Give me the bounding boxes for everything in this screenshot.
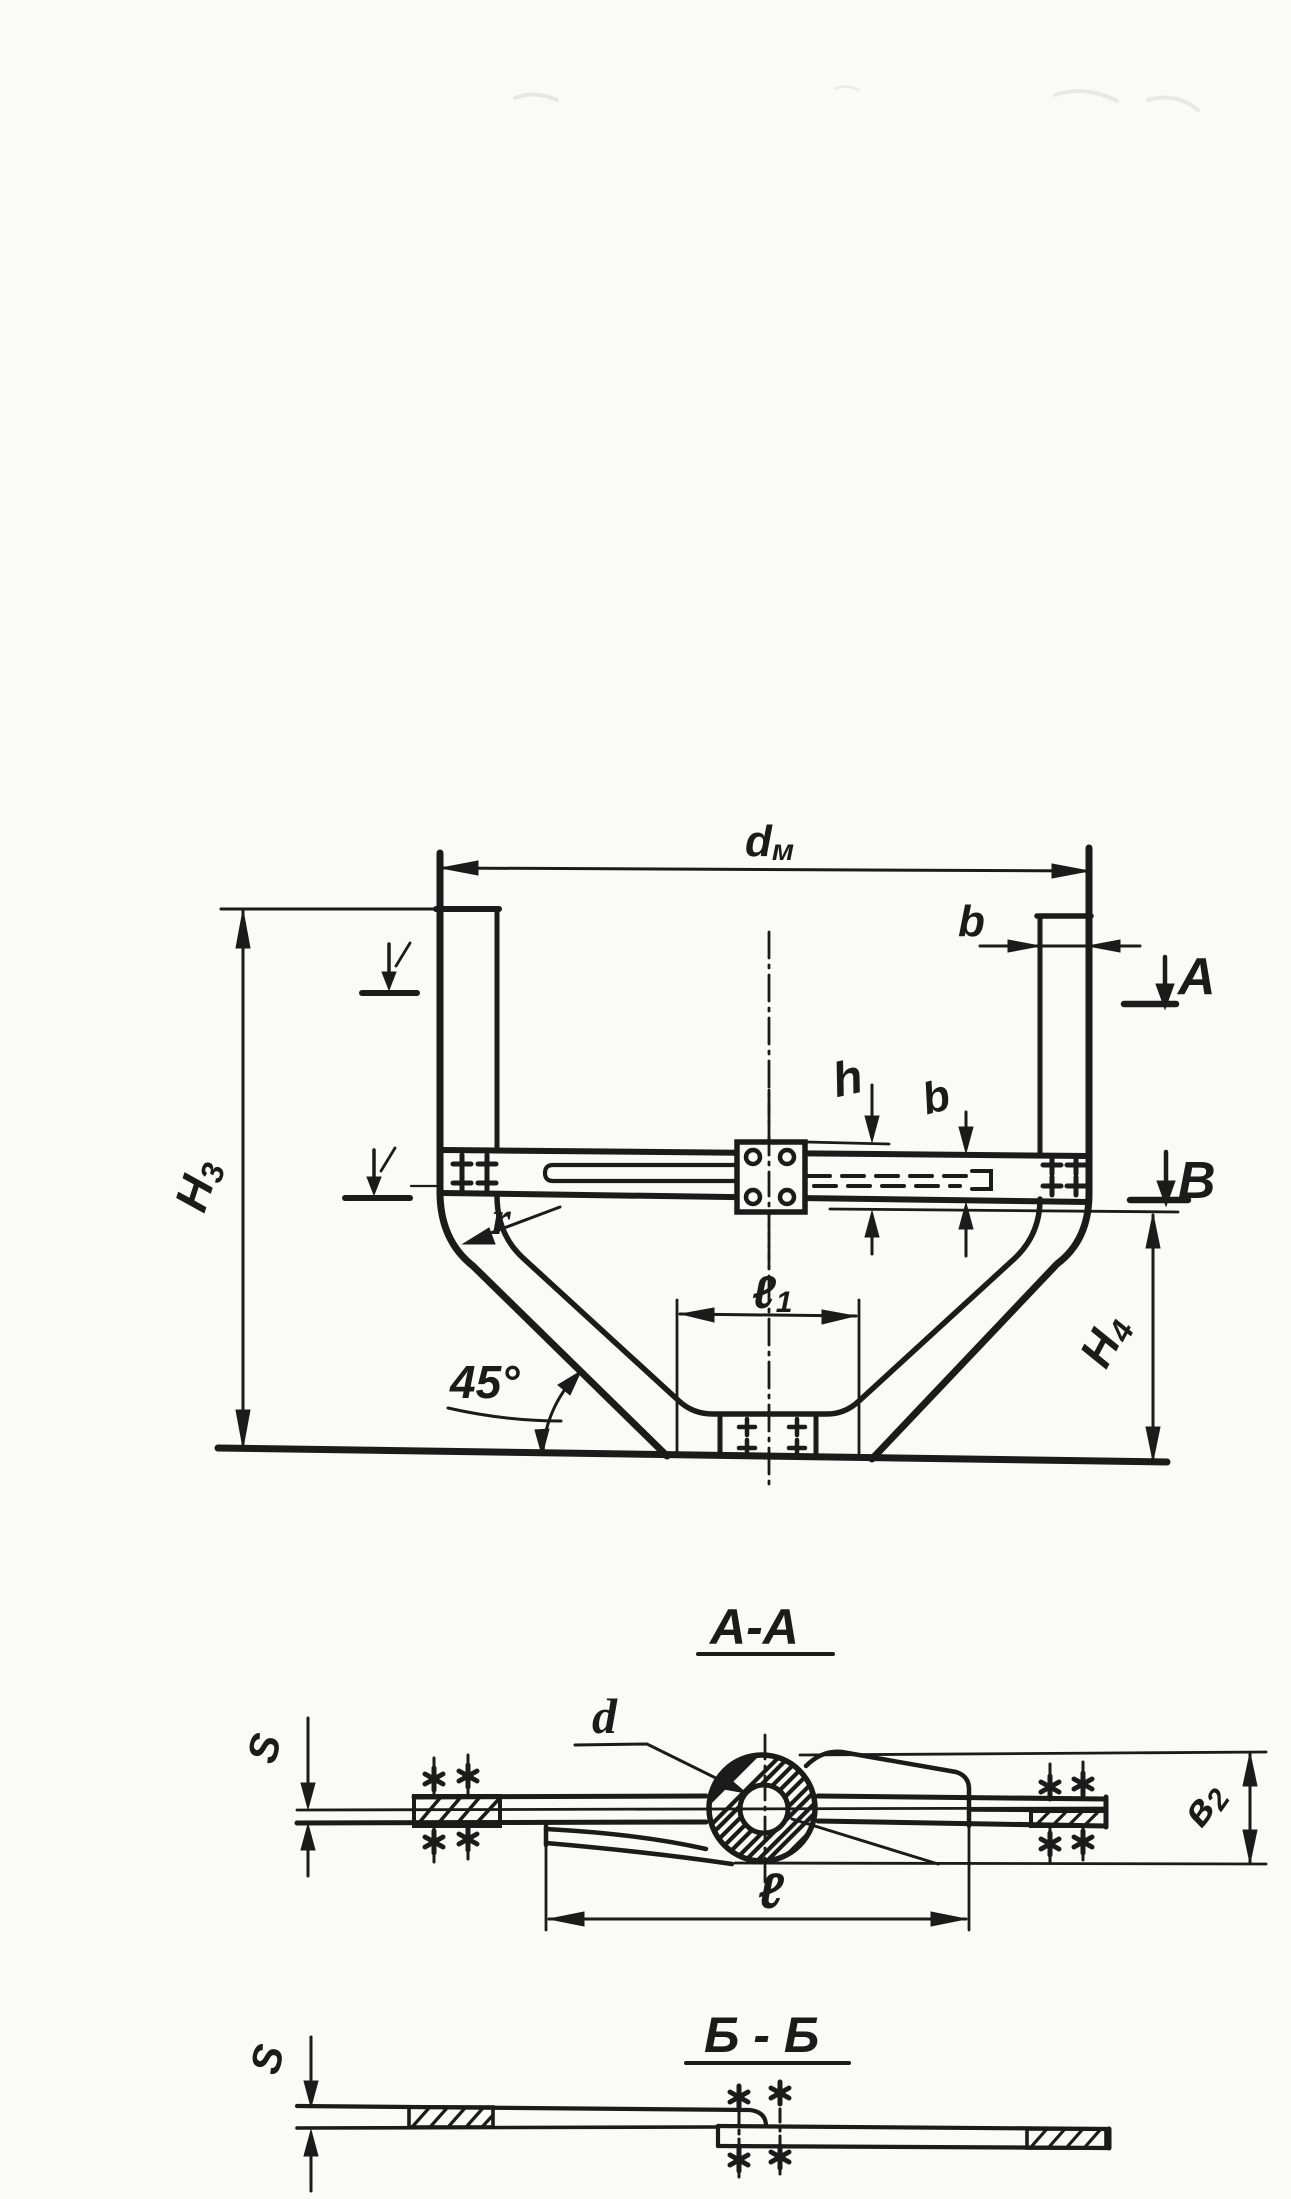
dimension l extension left [545,1847,548,1930]
dimension dM extension left [439,852,442,910]
svg-text:Б - Б: Б - Б [704,2007,819,2063]
centerline crossbar stub [411,1185,436,1187]
upper right blade edge [806,1752,969,1826]
label d with leader arrow [575,1688,746,1793]
weld crosses at left arm joint [453,1155,496,1192]
weld joint centerlines [739,2082,780,2177]
hub bolt hole 4 [780,1190,794,1204]
dimension dM line with arrows [441,861,1089,878]
angle 45 arc with arrows [535,1371,581,1455]
right arm inner edge [1038,916,1043,1154]
lower left blade edge [546,1826,732,1864]
extension line under crossbar for h and H4 [830,1209,1178,1212]
lower plate top edge [718,2126,1109,2129]
strip middle line through hub [297,1808,1106,1810]
weld crosses at right arm joint [1043,1156,1085,1195]
weld stars right of hub [1041,1762,1092,1862]
strip top edge (blade plate) [414,1796,1106,1799]
radius r leader [463,1207,560,1244]
right arm outer edge with corner radius into right outer diagonal [872,848,1089,1459]
svg-text:В: В [1178,1152,1216,1210]
right arm section hatched [970,1810,1106,1826]
dimension H4 line with arrows [1146,1214,1160,1461]
lower plate end cap [1107,2129,1112,2148]
upper plate top edge [297,2106,766,2126]
weld crosses at bottom hub [739,1419,805,1456]
bottom hub left side [718,1414,723,1456]
left arm section hatched [414,1796,500,1826]
slot in crossbar left of hub [545,1165,737,1181]
dimension S left [304,2037,318,2191]
svg-text:b: b [958,897,985,946]
title underline [698,1652,833,1656]
hub centerline [768,1090,771,1268]
label 45 deg with leader [448,1408,561,1421]
dimension h arrows [865,1085,879,1254]
left arm outer edge with corner radius into left outer diagonal [440,853,667,1456]
weld stars at joint [730,2082,789,2171]
left arm inner edge [495,909,500,1151]
svg-text:А-А: А-А [708,1599,799,1655]
dimension l1 extension left [676,1300,679,1455]
title underline [686,2061,849,2065]
right arm top edge [1037,913,1091,919]
svg-text:r: r [492,1192,512,1245]
section B-B view [241,2007,1109,2191]
hidden strip dashed edges right of hub [808,1176,966,1186]
weld arrow symbol upper left [362,943,417,993]
dimension b2 line with arrows [1243,1753,1257,1863]
dimension dM extension right [1088,848,1091,916]
dimension H3 line with arrows [236,910,250,1448]
main view: anchor frame front elevation [164,817,1215,1490]
hub bore circle d [740,1785,788,1833]
hub ring hatching [700,1726,864,1880]
svg-text:ℓ: ℓ [758,1863,785,1919]
b2 extension bottom [735,1863,1266,1864]
dimension H3 extension top [221,908,440,911]
section A-A view [238,1599,1266,1930]
dimension S left [301,1718,315,1876]
lower plate bottom edge [718,2146,1109,2148]
hub bolt hole 3 [746,1190,760,1204]
hub vertical centerline [764,1735,767,1884]
hub bolt hole 2 [780,1150,794,1164]
left arm top edge [436,906,499,912]
section arrow B [1130,1152,1188,1206]
crossbar top edge [443,1150,1088,1156]
svg-text:45°: 45° [449,1356,520,1408]
upper plate hatched arm section [409,2107,493,2127]
hub bolt hole 1 [746,1150,760,1164]
dimension l1 extension right [858,1300,861,1458]
weld arrow symbol lower left [345,1148,410,1198]
b2 extension top [800,1752,1266,1755]
lower plate step [716,2126,720,2146]
lower plate hatched arm section [1027,2129,1106,2148]
bottom hub right side [814,1414,819,1457]
crossbar bottom edge [443,1193,1088,1202]
svg-text:A: A [1176,948,1216,1006]
upper plate bottom edge [297,2127,718,2128]
dimension h extension top [806,1142,889,1144]
section arrow A [1124,957,1176,1009]
dimension b mid arrows [959,1112,973,1256]
inner V contour (from left arm inner corner to right arm inner corner) [497,1196,1040,1414]
hub plate [737,1142,805,1212]
dimension l1 line with arrows [680,1308,856,1324]
strip bottom edge [297,1821,1106,1826]
dimension l line with arrows [549,1912,966,1926]
hidden strip right end hook [972,1171,991,1189]
dimension l extension right [968,1828,971,1930]
dimension b top-right line with arrows [980,940,1140,952]
leader diagonal to b2 bottom extension [792,1819,938,1864]
svg-text:d: d [592,1688,618,1744]
centerline vertical axis [768,932,771,1490]
hub boss outer circle [709,1755,815,1861]
ground baseline [218,1448,1167,1462]
right strip end cap [1104,1797,1109,1827]
weld stars left of hub [425,1755,477,1862]
